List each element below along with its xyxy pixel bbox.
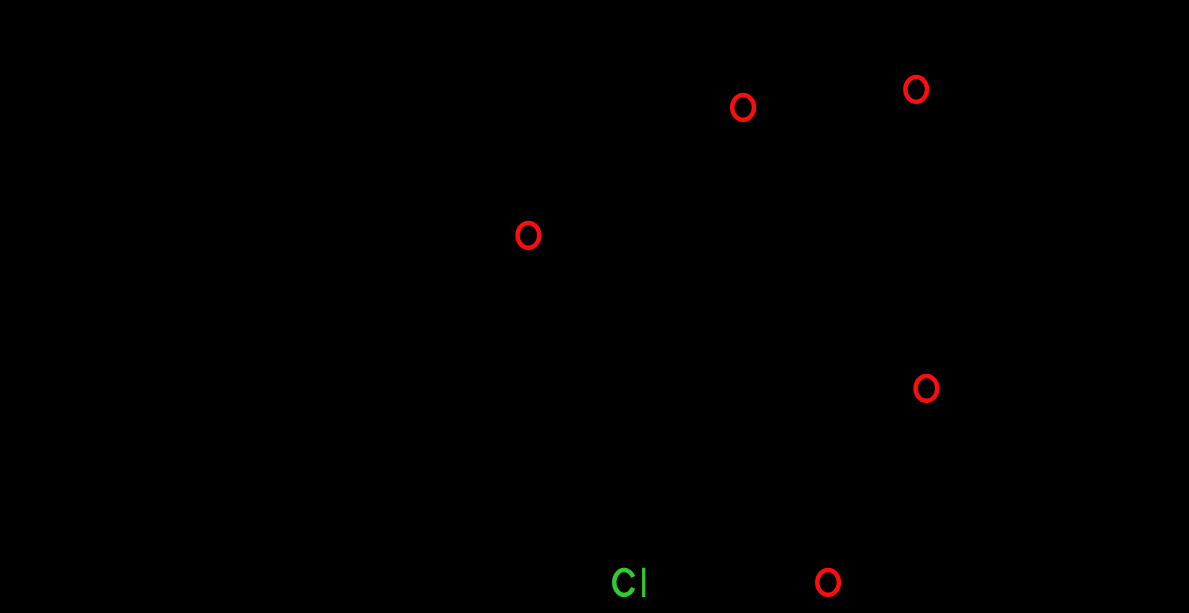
atom O3 ether oxygen (left) (518, 223, 540, 248)
bond C-O1 ester (757, 112, 850, 135)
bond O1-CH3 methyl (700, 30, 738, 95)
bond O3-ring (542, 243, 612, 286)
atom O2 carbonyl oxygen (top right) (905, 77, 927, 102)
bond C=O2 ester carbonyl (850, 100, 903, 135)
atom O1 ester oxygen (top middle) (732, 95, 754, 120)
ring benzene B (980, 230, 1140, 380)
bond C-O4 ring ether (860, 395, 913, 420)
bond C-C ester link (820, 135, 850, 200)
atom O5 carbonyl oxygen (bottom) (817, 570, 839, 595)
atom O4 ring oxygen (right) (916, 376, 938, 401)
bond C=O5 carbonyl (752, 450, 828, 560)
bond C-Cl (612, 409, 628, 560)
atom Cl chlorine (bottom left) (614, 568, 645, 597)
bond chain C-C left alkyl (165, 200, 515, 243)
ring aromatic A (612, 245, 752, 409)
